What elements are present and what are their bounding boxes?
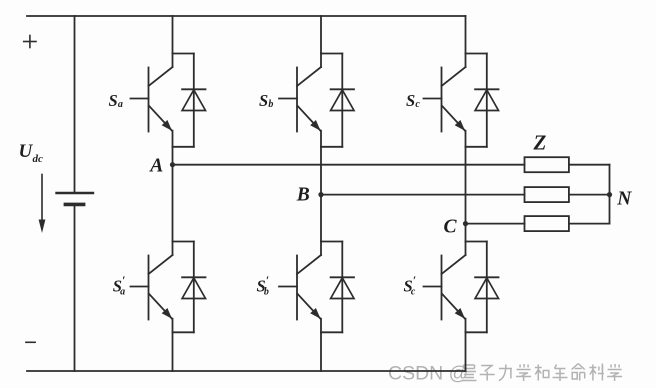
wire: bottom jog to diode branch of Sb&#8242; xyxy=(321,331,342,333)
diode antiparallel to Sa&#8242; xyxy=(182,277,205,298)
transistor Sa&#8242; xyxy=(131,255,173,320)
current direction arrow for Udc xyxy=(39,175,46,234)
svg-text:Sc: Sc xyxy=(406,91,420,110)
wire: phase A output line to load xyxy=(173,164,525,166)
watermark CJK characters (drawn) xyxy=(462,364,623,382)
svg-text:S′a: S′a xyxy=(113,273,126,297)
wire: bottom jog to diode branch of Sc xyxy=(466,146,487,148)
label + terminal xyxy=(24,36,36,48)
wire: emitter stub of Sa xyxy=(172,131,174,147)
svg-text:C: C xyxy=(444,216,458,237)
wire: diode branch vertical of Sb&#8242; xyxy=(341,242,343,333)
resistor Z phase C xyxy=(525,216,569,231)
wire: bottom jog to diode branch of Sa xyxy=(173,146,194,148)
wire: phase B from load to neutral xyxy=(569,194,610,196)
wire: positive DC bus (top rail) xyxy=(27,15,466,17)
wire: tee from leg to diode branch of Sa xyxy=(173,53,194,55)
diode antiparallel to Sb&#8242; xyxy=(331,277,354,298)
wire: collector stub of Sb xyxy=(320,54,322,68)
svg-text:Z: Z xyxy=(533,131,547,155)
wire: collector stub of Sb&#8242; xyxy=(320,242,322,256)
svg-text:A: A xyxy=(148,155,163,176)
wire: emitter stub of Sb&#8242; xyxy=(320,319,322,333)
diode antiparallel to Sc xyxy=(475,89,498,110)
svg-text:B: B xyxy=(296,185,310,206)
node N junction dot xyxy=(607,192,612,197)
wire: neutral bus vertical xyxy=(609,165,611,224)
resistor Z phase B xyxy=(525,187,569,202)
wire: phase C from load to neutral xyxy=(569,223,610,225)
svg-text:Udc: Udc xyxy=(19,141,44,165)
wire: phase A from load to neutral xyxy=(569,164,610,166)
battery (DC source) xyxy=(57,193,94,204)
wire: collector stub of Sa&#8242; xyxy=(172,242,174,256)
transistor Sa xyxy=(131,67,173,132)
svg-text:Sa: Sa xyxy=(109,91,123,110)
svg-text:S′b: S′b xyxy=(257,273,270,297)
wire: bottom jog to diode branch of Sa&#8242; xyxy=(173,331,194,333)
diode antiparallel to Sc&#8242; xyxy=(475,277,498,298)
transistor Sb&#8242; xyxy=(279,255,321,320)
wire: diode branch vertical of Sa xyxy=(193,54,195,147)
wire: emitter stub of Sc&#8242; xyxy=(465,319,467,333)
wire: diode branch vertical of Sb xyxy=(341,54,343,147)
wire: negative DC bus (bottom rail) xyxy=(27,370,466,372)
svg-text:Sb: Sb xyxy=(259,91,273,110)
transistor Sb xyxy=(279,67,321,132)
wire: emitter stub of Sc xyxy=(465,131,467,147)
diode antiparallel to Sa xyxy=(182,89,205,110)
wire: phase C leg from top bus xyxy=(465,16,467,54)
wire: battery branch lower xyxy=(74,206,76,371)
wire: phase C output line to load xyxy=(466,223,525,225)
wire: phase A leg to bottom bus xyxy=(172,332,174,371)
wire: emitter stub of Sa&#8242; xyxy=(172,319,174,333)
node A junction dot xyxy=(170,162,175,167)
transistor Sc&#8242; xyxy=(424,255,466,320)
wire: tee from leg to diode branch of Sb&#8242; xyxy=(321,241,342,243)
wire: phase B leg mid section xyxy=(320,147,322,242)
wire: diode branch vertical of Sc xyxy=(486,54,488,147)
transistor Sc xyxy=(424,67,466,132)
node B junction dot xyxy=(318,192,323,197)
wire: phase A leg from top bus xyxy=(172,16,174,54)
wire: phase A leg mid section xyxy=(172,147,174,242)
wire: phase C leg mid section xyxy=(465,147,467,242)
diode antiparallel to Sb xyxy=(331,89,354,110)
wire: emitter stub of Sb xyxy=(320,131,322,147)
wire: diode branch vertical of Sa&#8242; xyxy=(193,242,195,333)
label - terminal xyxy=(26,341,35,343)
wire: phase B leg from top bus xyxy=(320,16,322,54)
wire: phase B leg to bottom bus xyxy=(320,332,322,371)
resistor Z phase A xyxy=(525,157,569,172)
wire: phase C leg to bottom bus xyxy=(465,332,467,371)
wire: phase B output line to load xyxy=(321,194,525,196)
wire: collector stub of Sc xyxy=(465,54,467,68)
wire: collector stub of Sc&#8242; xyxy=(465,242,467,256)
wire: diode branch vertical of Sc&#8242; xyxy=(486,242,488,333)
svg-text:N: N xyxy=(616,189,632,210)
wire: bottom jog to diode branch of Sb xyxy=(321,146,342,148)
wire: tee from leg to diode branch of Sb xyxy=(321,53,342,55)
wire: tee from leg to diode branch of Sa&#8242; xyxy=(173,241,194,243)
svg-text:S′c: S′c xyxy=(404,273,417,297)
wire: battery branch upper xyxy=(74,16,76,192)
wire: collector stub of Sa xyxy=(172,54,174,68)
svg-text:CSDN @: CSDN @ xyxy=(388,363,468,385)
wire: tee from leg to diode branch of Sc xyxy=(466,53,487,55)
wire: bottom jog to diode branch of Sc&#8242; xyxy=(466,331,487,333)
wire: tee from leg to diode branch of Sc&#8242; xyxy=(466,241,487,243)
node C junction dot xyxy=(463,221,468,226)
